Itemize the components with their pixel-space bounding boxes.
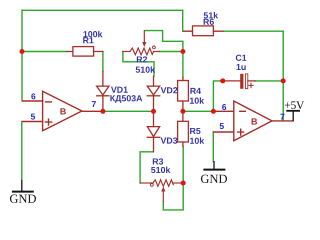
wire R6 right (223, 30, 283, 32)
op-amp U1 (23, 91, 103, 131)
capacitor C1 (221, 74, 255, 89)
wire R4 node to op-amp U2 pin 6 (183, 110, 214, 112)
resistor R5 (178, 111, 189, 146)
diode VD2 (147, 76, 159, 111)
junction node VD1 cathode / U1 output (100, 109, 105, 114)
label R3 value 510k (151, 167, 170, 173)
wire R3 wiper loop (163, 183, 183, 210)
junction node C1 right / rail (281, 78, 286, 83)
junction node VD2/VD3 (151, 109, 156, 114)
junction node R3 right / wiper / R5 (181, 181, 186, 186)
pin 6 U1 (31, 93, 35, 99)
potentiometer R2 (123, 31, 159, 55)
junction node R1/left rail (20, 49, 25, 54)
label R4 (190, 88, 201, 94)
label C1 value 1u (237, 64, 246, 70)
wire right rail upper (282, 31, 284, 81)
resistor R1 (67, 47, 103, 57)
junction node R4/R5 (180, 109, 185, 114)
label R6 value 51k (204, 12, 218, 18)
wire op-amp U2 pin 5 to GND (212, 132, 214, 162)
wire C1 left branch (213, 81, 220, 111)
label R3 (153, 158, 163, 164)
ground symbol left (13, 181, 33, 192)
wire left rail lower (21, 52, 23, 101)
pin 6 U2 (222, 104, 226, 110)
wire op-amp U1 pin 5 to GND (21, 122, 23, 181)
label R2 value 510k (136, 66, 155, 72)
capacitor C1 left plate (240, 74, 243, 89)
label R4 value 10k (190, 97, 204, 103)
label R5 (190, 128, 200, 134)
diode VD1 (97, 71, 109, 111)
label R1 value 100k (83, 31, 102, 37)
wire top horizontal (22, 9, 183, 11)
wire top to R6 (182, 10, 184, 31)
wire R2 right to node (159, 51, 183, 53)
wire VD3 cathode to R3 left (140, 152, 153, 183)
op-amp U1 letter B (60, 108, 65, 114)
pin 5 U1 (31, 114, 35, 120)
ground label left (10, 195, 36, 203)
pin 7 U2 (280, 114, 284, 120)
wire R1 right down to VD1 (102, 52, 104, 72)
junction node R2 right / R4 top (180, 49, 185, 54)
wire right rail lower to output (282, 81, 284, 121)
label VD1 (111, 87, 128, 93)
resistor R4 (178, 77, 189, 111)
label VD3 (161, 137, 178, 143)
wire R5 bottom to R3 node (182, 147, 184, 184)
op-amp U2 (213, 101, 293, 141)
wire C1 right (255, 80, 283, 82)
label R1 (83, 37, 93, 43)
label R5 value 10k (190, 137, 204, 143)
label R2 (137, 56, 147, 62)
wire R2 left to VD2 anode (123, 52, 154, 77)
op-amp U2 letter B (252, 118, 257, 124)
label VD2 (161, 87, 178, 93)
potentiometer R3 (140, 180, 183, 202)
wire R2 wiper staircase (145, 31, 183, 52)
junction node C1 branch / pin 6 (211, 109, 216, 114)
label C1 (236, 55, 247, 61)
potentiometer R3 wiper arrowhead (161, 187, 165, 192)
label R6 (204, 19, 214, 25)
pin 7 U1 (92, 101, 96, 107)
wire node to R4 top (182, 52, 184, 78)
wire left rail upper (21, 10, 23, 51)
potentiometer R2 wiper arrowhead (142, 42, 146, 47)
label VD1 type КД503А (110, 95, 142, 103)
junction node C1 left (220, 78, 225, 83)
resistor R6 (183, 26, 223, 36)
power label +5V (285, 101, 304, 109)
ground symbol middle (204, 162, 224, 170)
wire R1 left (22, 51, 67, 53)
diode VD3 (147, 111, 159, 152)
pin 5 U2 (220, 123, 224, 129)
ground label middle (201, 175, 227, 183)
power terminal +5V (287, 111, 299, 121)
wire output op-amp U1 to VD2 node (103, 110, 154, 112)
